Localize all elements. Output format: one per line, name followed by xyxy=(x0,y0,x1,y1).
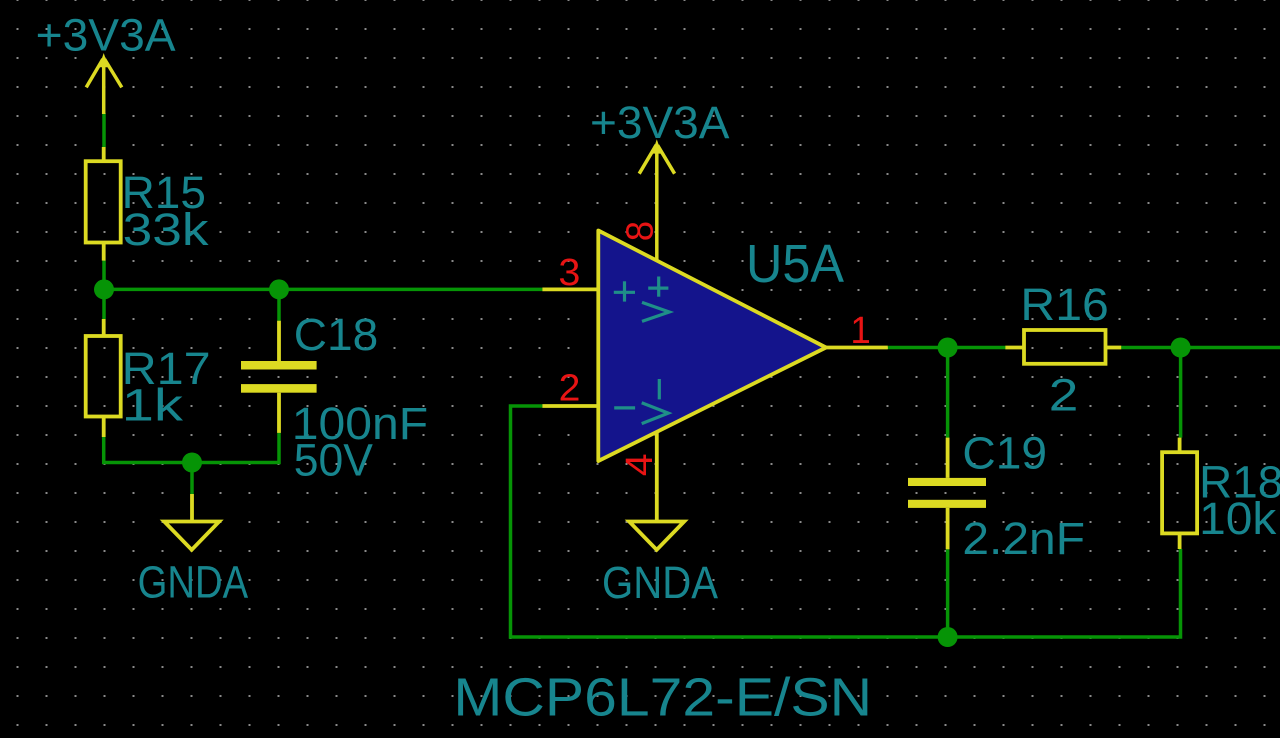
svg-text:10k: 10k xyxy=(1199,493,1276,544)
svg-text:C18: C18 xyxy=(294,309,378,360)
power +3V3A (above op-amp) xyxy=(639,142,674,260)
ground GNDA (left) xyxy=(164,494,219,550)
svg-text:2: 2 xyxy=(1049,370,1079,421)
power +3V3A (left) xyxy=(86,56,122,115)
op-amp gain chevron (top) xyxy=(642,302,669,321)
op-amp pin 2 stub xyxy=(542,404,598,408)
svg-text:2.2nF: 2.2nF xyxy=(962,513,1085,564)
svg-text:4: 4 xyxy=(619,453,661,476)
svg-text:C19: C19 xyxy=(962,428,1047,479)
wire: output junction down to C19 top xyxy=(946,348,950,438)
resistor R16 xyxy=(1005,330,1121,364)
svg-text:+3V3A: +3V3A xyxy=(590,97,730,148)
wire: C19 bottom down to bottom rail xyxy=(946,549,950,637)
svg-text:33k: 33k xyxy=(123,204,209,255)
junction: node at bottom feedback rail xyxy=(938,627,958,647)
op-amp pin 4 stub xyxy=(655,433,659,521)
op-amp pin 3 stub xyxy=(542,287,598,291)
wire: R16 right to right edge xyxy=(1121,346,1280,350)
wire: op-amp output to R16 xyxy=(888,346,1006,350)
wire: feedback from op-amp pin 2 down, along bottom rail, up to R18 bottom xyxy=(511,406,1181,637)
wire: stub to left GNDA xyxy=(190,463,194,495)
wire: main horizontal net from R15/R17 node to op-amp pin 3 xyxy=(104,288,542,292)
wire: R17 bottom, bottom rail, up to C18 bottom xyxy=(104,433,279,463)
op-amp plus marker (input) xyxy=(614,281,635,301)
junction: node at op-amp output xyxy=(938,338,958,358)
capacitor C18 xyxy=(241,321,317,433)
op-amp minus marker (inner, vertical) xyxy=(658,379,661,399)
svg-text:1k: 1k xyxy=(122,380,184,431)
svg-text:3: 3 xyxy=(558,252,580,294)
resistor R18 xyxy=(1162,438,1197,549)
svg-text:1: 1 xyxy=(850,310,870,352)
wire: junction down to R17 top xyxy=(102,289,106,319)
svg-text:8: 8 xyxy=(620,221,662,241)
op-amp gain chevron (bottom) xyxy=(642,403,669,424)
op-amp U5A body xyxy=(598,231,826,462)
junction: node at C18 top xyxy=(269,279,289,299)
svg-text:MCP6L72-E/SN: MCP6L72-E/SN xyxy=(453,668,872,728)
capacitor C19 xyxy=(908,438,986,550)
op-amp minus marker (input) xyxy=(614,406,635,409)
junction: node at R16 right / R18 top xyxy=(1171,338,1191,358)
svg-text:R16: R16 xyxy=(1020,279,1108,330)
wire: junction to C18 top xyxy=(277,289,281,320)
resistor R15 xyxy=(86,147,121,261)
wire: R15 bottom to junction xyxy=(102,261,106,290)
svg-text:+3V3A: +3V3A xyxy=(36,10,177,61)
svg-text:GNDA: GNDA xyxy=(138,556,249,607)
svg-text:GNDA: GNDA xyxy=(602,557,719,608)
svg-text:50V: 50V xyxy=(294,435,374,486)
ground GNDA (op-amp) xyxy=(629,522,684,550)
wire: +3V3A power to R15 top xyxy=(102,113,106,147)
wire: right junction down to R18 top xyxy=(1179,348,1183,438)
junction: node at R15/R17 divider xyxy=(94,279,114,299)
svg-text:2: 2 xyxy=(559,368,581,410)
op-amp pin 1 stub xyxy=(826,346,888,350)
op-amp plus marker (inner) xyxy=(648,277,668,297)
junction: node at left GNDA rail xyxy=(182,453,202,473)
svg-text:U5A: U5A xyxy=(746,234,844,294)
resistor R17 xyxy=(86,319,121,437)
